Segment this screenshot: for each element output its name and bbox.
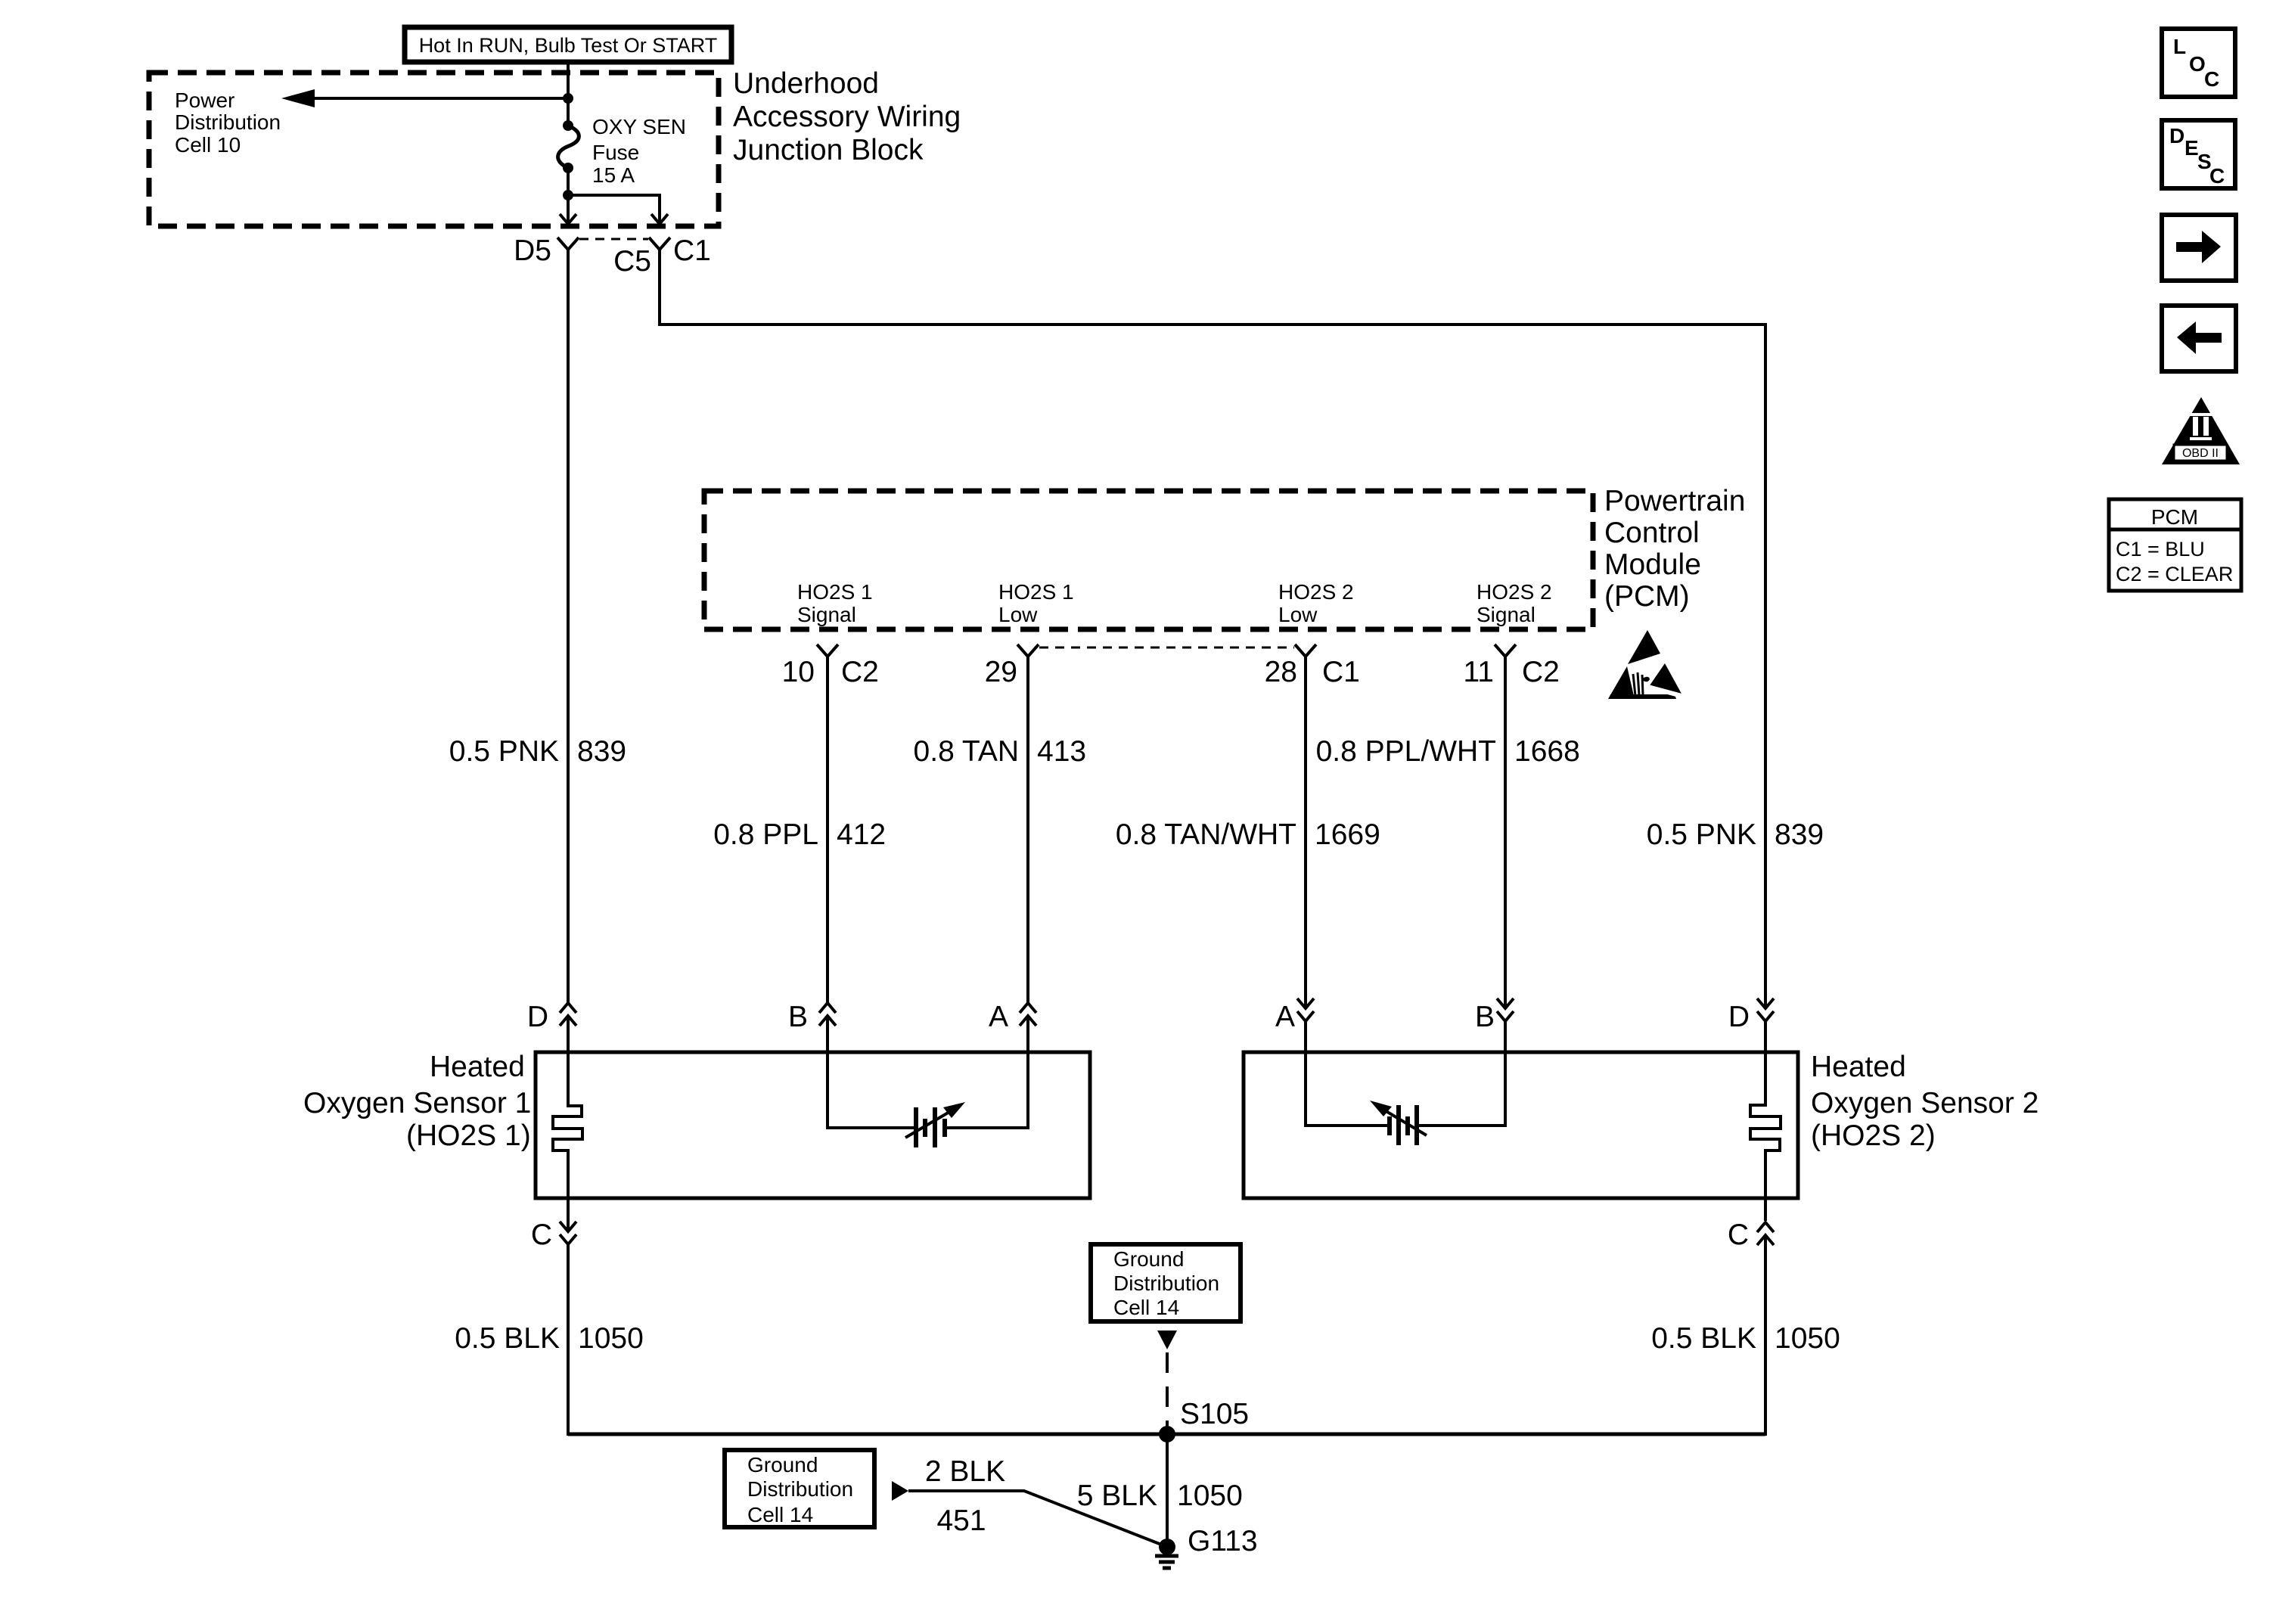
wire: 5 BLK 1050 from S105 to G113 xyxy=(1166,1434,1169,1547)
label: HO2S 1 Signal (PCM pin function) xyxy=(797,580,873,626)
arrow: from ground distribution to 2 BLK 451 xyxy=(892,1481,908,1501)
svg-text:Cell 14: Cell 14 xyxy=(1113,1296,1179,1319)
oxygen sensor variable cell (HO2S2) xyxy=(1370,1101,1427,1145)
connector D5 (junction block output) xyxy=(514,234,579,267)
svg-text:HO2S 2: HO2S 2 xyxy=(1278,580,1354,604)
svg-text:Signal: Signal xyxy=(797,603,856,626)
label: 0.5 BLK 1050 (right) xyxy=(1651,1322,1840,1355)
svg-text:Oxygen Sensor 2: Oxygen Sensor 2 xyxy=(1811,1087,2039,1119)
wire: 0.5 BLK 1050 left down to splice bus xyxy=(567,1244,570,1436)
label: Ground Distribution Cell 14 (lower) xyxy=(747,1453,853,1526)
svg-text:Signal: Signal xyxy=(1477,603,1536,626)
svg-text:Powertrain: Powertrain xyxy=(1604,485,1745,517)
svg-text:C: C xyxy=(2209,164,2225,188)
svg-text:Cell 14: Cell 14 xyxy=(747,1503,813,1526)
svg-text:B: B xyxy=(1475,1001,1495,1033)
svg-text:HO2S 1: HO2S 1 xyxy=(998,580,1074,604)
heated oxygen sensor 2 box xyxy=(1244,1052,1798,1198)
connector B (HO2S2, chevrons down) xyxy=(1475,998,1514,1053)
connector pin 29 (PCM) xyxy=(985,644,1039,688)
wire: 0.8 PPL 412 from pin 10 to HO2S1 pin B xyxy=(826,657,829,1003)
svg-text:A: A xyxy=(1275,1001,1295,1033)
svg-text:B: B xyxy=(788,1001,808,1033)
svg-text:1669: 1669 xyxy=(1315,818,1380,851)
svg-text:C: C xyxy=(531,1219,552,1251)
wire: branch to C1 with down arrow xyxy=(568,195,668,224)
label: 0.5 PNK 839 (right) xyxy=(1647,818,1824,851)
connector C (HO2S1, chevrons down) xyxy=(531,1199,576,1251)
svg-text:0.8 TAN: 0.8 TAN xyxy=(914,735,1019,768)
wire: 0.8 TAN 413 from pin 29 to HO2S1 pin A xyxy=(1026,657,1029,1003)
svg-text:Distribution: Distribution xyxy=(1113,1272,1219,1295)
svg-text:Junction Block: Junction Block xyxy=(733,134,924,166)
oxygen sensor variable cell (HO2S1) xyxy=(905,1102,965,1147)
svg-text:A: A xyxy=(989,1001,1008,1033)
dashed link between pin 29 and pin 28 xyxy=(1039,647,1294,649)
label: HO2S 2 Signal (PCM pin function) xyxy=(1477,580,1552,626)
label: Underhood Accessory Wiring Junction Block xyxy=(733,67,961,166)
label: Powertrain Control Module (PCM) xyxy=(1604,485,1745,613)
svg-text:0.8 PPL/WHT: 0.8 PPL/WHT xyxy=(1316,735,1496,768)
svg-text:413: 413 xyxy=(1037,735,1086,768)
svg-text:Ground: Ground xyxy=(747,1453,818,1477)
wire: 2 BLK 451 to ground G113 xyxy=(908,1491,1167,1547)
svg-text:839: 839 xyxy=(577,735,626,768)
svg-text:0.5 PNK: 0.5 PNK xyxy=(1647,818,1756,851)
fuse: OXY SEN Fuse 15 A xyxy=(558,120,579,173)
svg-text:C1 = BLU: C1 = BLU xyxy=(2116,538,2205,560)
ground G113 xyxy=(1155,1525,1258,1568)
svg-text:E: E xyxy=(2185,136,2199,160)
svg-text:C1: C1 xyxy=(673,234,711,267)
svg-text:HO2S 1: HO2S 1 xyxy=(797,580,873,604)
svg-text:D: D xyxy=(2169,124,2185,147)
svg-text:Heated: Heated xyxy=(430,1051,525,1083)
icon: LOC box xyxy=(2162,29,2235,97)
label: OXY SEN Fuse 15 A xyxy=(592,115,686,187)
label: Power Distribution Cell 10 xyxy=(175,88,281,157)
label: HO2S 2 Low (PCM pin function) xyxy=(1278,580,1354,626)
label: Heated Oxygen Sensor 2 (HO2S 2) xyxy=(1811,1051,2039,1152)
arrow: ground distribution drop xyxy=(1157,1331,1177,1349)
svg-text:10: 10 xyxy=(782,656,815,688)
svg-text:C: C xyxy=(1728,1219,1749,1251)
svg-text:28: 28 xyxy=(1265,656,1297,688)
svg-text:C2: C2 xyxy=(841,656,879,688)
icon: back arrow box xyxy=(2162,306,2236,371)
heater element (HO2S2) xyxy=(1750,1053,1781,1199)
svg-text:PCM: PCM xyxy=(2151,505,2198,529)
svg-text:Ground: Ground xyxy=(1113,1247,1184,1271)
connector C5 dashed link xyxy=(579,239,651,278)
svg-text:S105: S105 xyxy=(1180,1398,1249,1430)
wire: fuse output to branch junction xyxy=(567,168,570,195)
label: 0.5 BLK 1050 (left) xyxy=(455,1322,644,1355)
svg-text:D: D xyxy=(527,1001,548,1033)
svg-text:HO2S 2: HO2S 2 xyxy=(1477,580,1552,604)
svg-text:Distribution: Distribution xyxy=(175,110,281,134)
wire: branch to D5 with down arrow xyxy=(560,195,576,224)
svg-text:Cell 10: Cell 10 xyxy=(175,133,241,157)
heater element (HO2S1) xyxy=(553,1053,582,1199)
arrow: feed to Power Distribution Cell 10 xyxy=(281,89,568,107)
svg-text:OXY SEN: OXY SEN xyxy=(592,115,686,138)
label: 0.8 TAN 413 xyxy=(914,735,1087,768)
junction dot below fuse xyxy=(563,190,573,200)
svg-text:Control: Control xyxy=(1604,517,1700,549)
connector C1 (junction block output) xyxy=(649,234,711,267)
svg-text:451: 451 xyxy=(936,1504,986,1537)
label: 0.5 PNK 839 (left) xyxy=(449,735,626,768)
icon: forward arrow box xyxy=(2162,215,2236,281)
svg-text:(HO2S 2): (HO2S 2) xyxy=(1811,1119,1936,1152)
svg-text:1050: 1050 xyxy=(578,1322,644,1355)
svg-text:0.5 PNK: 0.5 PNK xyxy=(449,735,559,768)
svg-text:L: L xyxy=(2173,35,2186,58)
ground distribution cell 14 box (upper) xyxy=(1091,1244,1241,1321)
splice S105 xyxy=(1159,1398,1249,1442)
wire: 0.5 PNK 839 from C1 across to HO2S2 pin D xyxy=(660,250,1765,1009)
svg-text:O: O xyxy=(2189,52,2206,76)
svg-text:Power: Power xyxy=(175,88,234,112)
svg-text:2 BLK: 2 BLK xyxy=(925,1455,1005,1488)
legend: PCM connector colors xyxy=(2109,499,2241,591)
svg-text:G113: G113 xyxy=(1188,1525,1258,1557)
connector pin 11 C2 (PCM) xyxy=(1464,644,1560,688)
svg-text:Low: Low xyxy=(998,603,1038,626)
connector pin 10 C2 (PCM) xyxy=(782,644,879,688)
connector B (HO2S1, chevrons up) xyxy=(788,1001,836,1053)
wire: 0.5 BLK 1050 right down to splice bus xyxy=(1764,1235,1767,1436)
svg-text:Hot In RUN, Bulb Test Or START: Hot In RUN, Bulb Test Or START xyxy=(419,34,718,57)
ground distribution cell 14 box (lower) xyxy=(725,1450,874,1527)
svg-text:Accessory Wiring: Accessory Wiring xyxy=(733,101,961,133)
connector D (HO2S2, chevrons down) xyxy=(1728,998,1774,1053)
svg-text:Fuse: Fuse xyxy=(592,141,639,164)
label: 0.8 PPL/WHT 1668 xyxy=(1316,735,1580,768)
connector pin 28 C1 (PCM) xyxy=(1265,644,1360,688)
svg-text:Heated: Heated xyxy=(1811,1051,1906,1083)
powertrain control module PCM (dashed box) xyxy=(704,491,1593,629)
svg-text:C2 = CLEAR: C2 = CLEAR xyxy=(2116,563,2233,585)
svg-text:Module: Module xyxy=(1604,548,1701,581)
svg-text:D: D xyxy=(1728,1001,1750,1033)
connector D (HO2S1, chevrons up) xyxy=(527,1001,576,1053)
icon: DESC box xyxy=(2162,120,2235,188)
svg-text:Distribution: Distribution xyxy=(747,1477,853,1501)
svg-text:(HO2S 1): (HO2S 1) xyxy=(406,1119,531,1152)
svg-text:Oxygen Sensor 1: Oxygen Sensor 1 xyxy=(303,1087,531,1119)
wire: ground bus between sensors through S105 xyxy=(568,1433,1765,1436)
connector C (HO2S2, chevrons up) xyxy=(1728,1199,1774,1251)
label: Heated Oxygen Sensor 1 (HO2S 1) xyxy=(303,1051,531,1152)
heated oxygen sensor 1 box xyxy=(536,1052,1090,1198)
wire: 0.8 TAN/WHT 1669 from pin 28 to HO2S2 pin A xyxy=(1304,657,1307,1009)
junction dot at feed branch xyxy=(563,93,573,104)
svg-text:1668: 1668 xyxy=(1514,735,1580,768)
label: HO2S 1 Low (PCM pin function) xyxy=(998,580,1074,626)
svg-text:0.5 BLK: 0.5 BLK xyxy=(455,1322,560,1355)
svg-text:412: 412 xyxy=(837,818,886,851)
svg-text:Underhood: Underhood xyxy=(733,67,879,100)
svg-text:D5: D5 xyxy=(514,234,551,267)
label: 2 BLK 451 xyxy=(925,1455,1005,1537)
svg-text:11: 11 xyxy=(1464,656,1495,688)
wire: pin A into sensor cell (HO2S1) xyxy=(946,1053,1028,1128)
svg-text:0.8 PPL: 0.8 PPL xyxy=(713,818,818,851)
svg-text:839: 839 xyxy=(1775,818,1824,851)
svg-text:0.5 BLK: 0.5 BLK xyxy=(1651,1322,1756,1355)
icon: OBD II triangle xyxy=(2162,397,2240,464)
svg-text:15 A: 15 A xyxy=(592,163,635,187)
svg-text:1050: 1050 xyxy=(1775,1322,1840,1355)
power feed label box: Hot In RUN, Bulb Test Or START xyxy=(405,27,731,62)
label: Ground Distribution Cell 14 (upper) xyxy=(1113,1247,1219,1319)
svg-text:C: C xyxy=(2204,67,2219,91)
svg-text:C1: C1 xyxy=(1322,656,1360,688)
label: 5 BLK 1050 xyxy=(1077,1480,1243,1512)
wire: 0.5 PNK 839 from D5 to HO2S1 pin D xyxy=(567,250,570,1003)
connector A (HO2S1, chevrons up) xyxy=(989,1001,1036,1053)
ESD sensitive device symbol xyxy=(1608,630,1685,699)
svg-text:5 BLK: 5 BLK xyxy=(1077,1480,1157,1512)
svg-text:0.8 TAN/WHT: 0.8 TAN/WHT xyxy=(1116,818,1296,851)
label: 0.8 TAN/WHT 1669 xyxy=(1116,818,1380,851)
svg-text:Low: Low xyxy=(1278,603,1318,626)
wire: pin A into sensor cell (HO2S2) xyxy=(1306,1053,1388,1126)
connector A (HO2S2, chevrons down) xyxy=(1275,998,1314,1053)
svg-text:OBD II: OBD II xyxy=(2182,447,2219,460)
wire: 0.8 PPL/WHT 1668 from pin 11 to HO2S2 pin B xyxy=(1504,657,1507,1009)
underhood accessory wiring junction block (dashed box) xyxy=(149,73,719,226)
wire: pin B into sensor cell (HO2S1) xyxy=(828,1053,914,1128)
svg-text:(PCM): (PCM) xyxy=(1604,580,1690,613)
wire: pin B into sensor cell (HO2S2) xyxy=(1418,1053,1505,1126)
svg-text:C5: C5 xyxy=(613,245,651,278)
svg-text:29: 29 xyxy=(985,656,1017,688)
svg-text:C2: C2 xyxy=(1522,656,1560,688)
dashed wire to splice S105 xyxy=(1166,1352,1169,1430)
label: 0.8 PPL 412 xyxy=(713,818,886,851)
wire: feed from Hot In RUN box down to fuse xyxy=(567,62,570,126)
svg-text:1050: 1050 xyxy=(1177,1480,1243,1512)
